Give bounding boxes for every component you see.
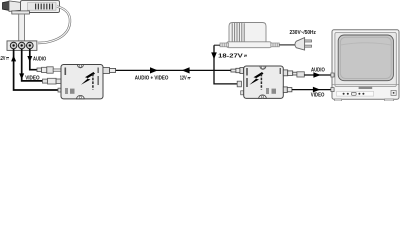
svg-text:12V: 12V — [180, 76, 187, 82]
camera CAM1 body — [21, 1, 60, 13]
camera mount pole — [19, 14, 25, 41]
svg-text:AUDIO: AUDIO — [311, 68, 325, 74]
wire video receiver to TV — [292, 89, 333, 91]
transmitter U1 inner markings — [65, 68, 99, 95]
arrow left 12V on main line — [182, 67, 190, 73]
arrow right video to TV — [313, 87, 320, 93]
video plug into transmitter — [43, 79, 48, 83]
video out stub receiver — [283, 87, 287, 93]
TV foot left — [335, 99, 342, 101]
receiver U2 inner markings — [246, 68, 281, 94]
DC plug into receiver — [237, 81, 241, 87]
TV audio input jack — [331, 73, 334, 77]
mains europlug P1 — [295, 38, 305, 50]
wire VIDEO from camera to transmitter — [22, 49, 43, 81]
power adapter PS1 base flange — [227, 42, 272, 48]
svg-text:AUDIO + VIDEO: AUDIO + VIDEO — [135, 76, 169, 82]
camera CAM1 lens cap — [3, 1, 10, 10]
wire adapter left cable — [214, 44, 220, 46]
europlug pins — [305, 40, 312, 42]
svg-text:18-27V: 18-27V — [218, 53, 243, 59]
power adapter PS1 grille — [232, 23, 244, 42]
wire 12V from transmitter to camera — [14, 49, 60, 90]
receiver U2 logo flash — [250, 72, 264, 85]
TV side control — [391, 90, 396, 95]
power adapter strain relief left — [220, 43, 229, 47]
terminal 2 — [18, 42, 25, 49]
TV button panel — [337, 91, 374, 96]
TV foot right — [385, 99, 394, 101]
transmitter U1 logo flash — [81, 72, 95, 85]
terminal block — [7, 41, 37, 51]
arrow right audio to TV — [313, 72, 320, 78]
camera mount bracket — [12, 11, 30, 14]
audio out stub receiver — [283, 70, 287, 76]
TV buttons — [343, 93, 345, 95]
TV bezel — [335, 33, 396, 87]
terminal 1 — [10, 42, 17, 49]
svg-text:AUDIO: AUDIO — [33, 56, 47, 62]
svg-text:12V: 12V — [0, 56, 5, 62]
arrow down 18-27V — [211, 52, 217, 59]
TV monitor body — [332, 30, 399, 99]
transmitter U1 output stub — [103, 68, 110, 74]
receiver U2 top notch with screw — [260, 66, 266, 69]
wire main line transmitter to receiver — [116, 69, 231, 71]
audio plug into transmitter — [37, 68, 42, 72]
camera cable from body to terminal block — [38, 7, 70, 44]
transmitter U1 body — [61, 65, 103, 99]
transmitter U1 top notch with screw — [77, 65, 83, 68]
coax plug into receiver — [231, 69, 236, 72]
svg-text:VIDEO: VIDEO — [311, 93, 325, 99]
camera CAM1 vent slots — [36, 4, 53, 10]
wire power adapter to receiver — [214, 45, 237, 84]
camera CAM1 vent panel — [28, 3, 57, 11]
power adapter PS1 body — [229, 23, 266, 43]
wire AUDIO from camera to transmitter — [30, 49, 38, 70]
svg-text:230V~/50Hz: 230V~/50Hz — [290, 30, 316, 36]
camera CAM1 lens barrel — [9, 1, 21, 12]
arrow up 12V — [11, 55, 16, 61]
arrow right AUDIO+VIDEO — [150, 67, 158, 73]
wire adapter to mains plug — [279, 44, 295, 46]
svg-text:VIDEO: VIDEO — [25, 75, 40, 81]
TV screen — [338, 35, 393, 81]
receiver U2 bottom notch — [259, 95, 267, 98]
TV panel seam — [333, 84, 399, 86]
wire audio receiver to TV — [304, 74, 332, 76]
arrow down AUDIO — [27, 56, 32, 62]
receiver U2 body — [244, 66, 284, 98]
terminal 3 — [27, 42, 34, 49]
TV brand label — [359, 87, 373, 89]
power adapter strain relief right — [271, 43, 280, 47]
receiver tab lower-left — [241, 91, 244, 95]
TV video input jack — [331, 88, 334, 92]
transmitter U1 bottom notch — [77, 95, 85, 98]
12V stub on transmitter — [58, 88, 62, 92]
arrow down VIDEO — [19, 73, 24, 79]
